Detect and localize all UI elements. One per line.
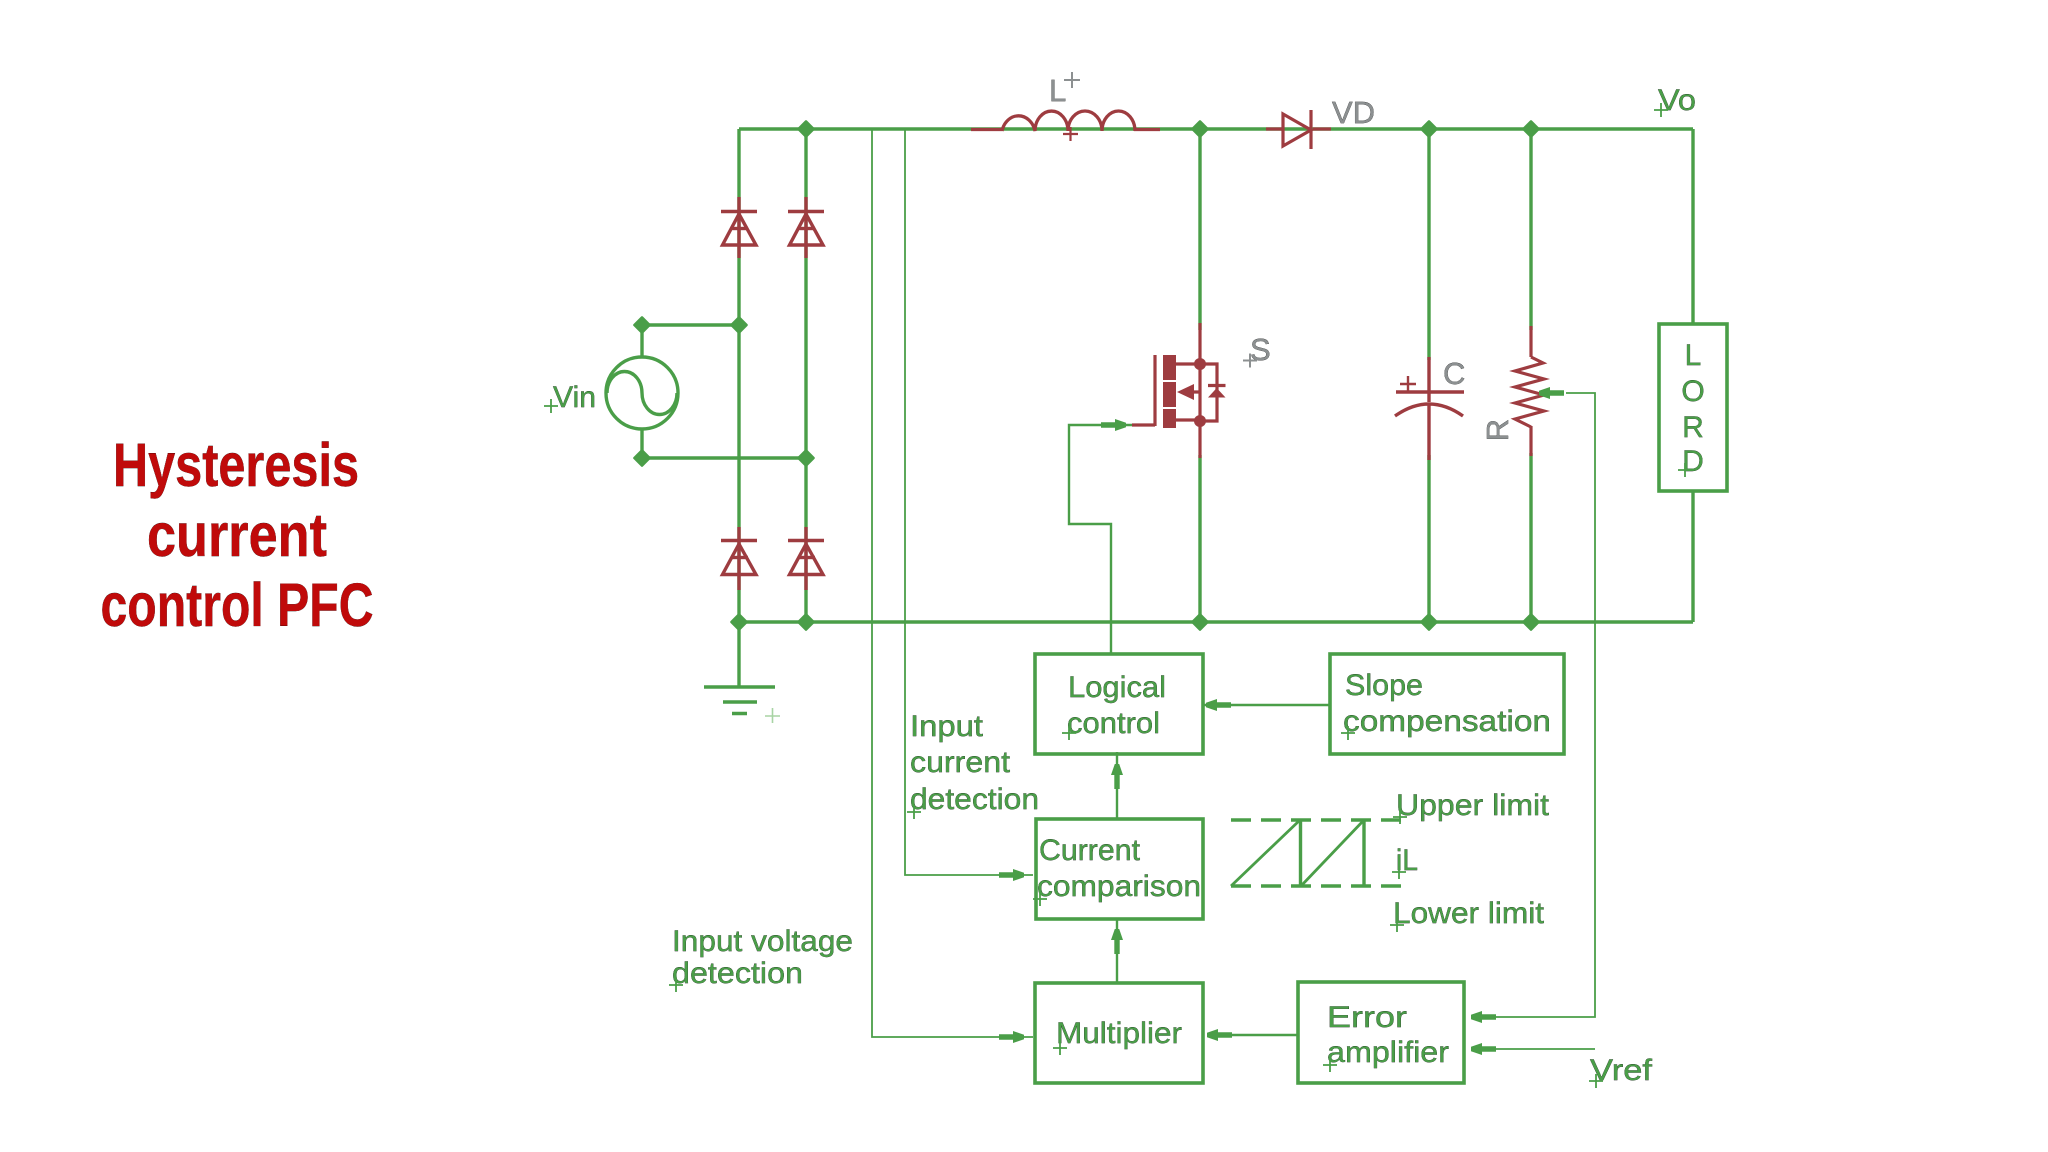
ground faint anchor [765, 708, 780, 723]
svg-text:Vref: Vref [1590, 1054, 1653, 1087]
diode D4 bridge lower right [788, 527, 824, 590]
junction resistor / top bus [1523, 121, 1538, 136]
channel connection stubs [1176, 364, 1200, 420]
diode VD (boost diode) [1266, 110, 1331, 149]
wire: top bus [739, 127, 1693, 130]
diode D3 bridge lower left [721, 527, 757, 590]
junction bridge right leg / bottom bus [798, 614, 813, 629]
svg-text:Input: Input [910, 710, 984, 743]
svg-text:current: current [910, 746, 1011, 779]
junction Vin plus terminal [634, 317, 649, 332]
wire: bridge right leg [804, 129, 807, 622]
wire: capacitor column [1427, 129, 1430, 622]
junction MOSFET source / bottom bus [1192, 614, 1207, 629]
svg-text:Multiplier: Multiplier [1056, 1017, 1182, 1050]
svg-text:C: C [1443, 356, 1465, 391]
svg-text:Vin: Vin [553, 381, 596, 414]
waveform lower dashed limit [1231, 884, 1401, 887]
anchor plus for Multiplier [1053, 1041, 1067, 1055]
svg-text:Upper limit: Upper limit [1396, 789, 1550, 822]
anchor plus for Input voltage detection [669, 978, 683, 992]
internal vertical between drain and source [1198, 364, 1201, 421]
junction Vin minus terminal [634, 450, 649, 465]
wire: error amplifier to multiplier [1207, 1034, 1298, 1036]
svg-text:Logical: Logical [1068, 671, 1166, 704]
wire: input current detection tap [905, 129, 1033, 875]
svg-text:control: control [1067, 707, 1160, 740]
svg-text:S: S [1250, 332, 1271, 367]
svg-text:amplifier: amplifier [1327, 1036, 1449, 1069]
gate electrode [1153, 355, 1156, 426]
waveform upper dashed limit [1231, 818, 1401, 821]
svg-text:L: L [1685, 339, 1702, 372]
inductor plus mark [1063, 127, 1078, 141]
thin sense wires [872, 129, 1595, 1049]
svg-text:Current: Current [1039, 834, 1141, 867]
arrow into logical control from slope comp [1206, 699, 1231, 711]
diode D1 bridge upper left [721, 197, 757, 258]
ground symbol [704, 687, 775, 714]
junction capacitor / top bus [1421, 121, 1436, 136]
wire: Vo feedback from resistor tap [1472, 393, 1595, 1017]
svg-text:Slope: Slope [1345, 669, 1423, 702]
svg-text:Vo: Vo [1658, 84, 1696, 117]
capacitor C (output cap) [1395, 357, 1464, 460]
block: load box [1659, 324, 1727, 491]
anchor plus for Error amplifier [1323, 1058, 1337, 1072]
svg-text:R: R [1682, 411, 1704, 444]
svg-text:compensation: compensation [1343, 705, 1551, 738]
body diode branch [1200, 364, 1217, 421]
svg-text:control PFC: control PFC [101, 571, 374, 639]
svg-text:detection: detection [910, 783, 1039, 816]
junction MOSFET drain / top bus [1192, 121, 1207, 136]
arrow into error amp lower (Vref) [1471, 1043, 1496, 1055]
block: Slope compensation [1330, 654, 1564, 754]
wire: input voltage detection tap [872, 129, 1033, 1037]
svg-text:comparison: comparison [1037, 870, 1201, 903]
wire: right drop to load [1691, 129, 1694, 325]
drain lead [1198, 323, 1201, 364]
wire: MOSFET source column [1198, 455, 1201, 622]
resistor R (output divider) [1515, 326, 1544, 456]
arrow into multiplier from error amp [1207, 1029, 1232, 1041]
arrow up into logical control [1111, 764, 1123, 789]
wire: load bottom to bus [1691, 491, 1694, 622]
gate lead [1132, 423, 1155, 426]
arrow into MOSFET gate [1101, 419, 1126, 431]
wire: Vin top connection [642, 323, 739, 326]
wire: current comparison to multiplier [1116, 918, 1118, 983]
AC source Vin [606, 357, 678, 429]
wire: logical control to current comparison [1116, 752, 1118, 819]
diode D2 bridge upper right [788, 197, 824, 258]
wire: gate drive from logical control [1069, 425, 1132, 654]
wire: bottom bus [739, 620, 1693, 623]
arrow up into current comparison [1111, 929, 1123, 954]
anchor plus for label Vref [1589, 1074, 1603, 1088]
svg-text:Error: Error [1327, 1001, 1407, 1034]
svg-text:O: O [1681, 375, 1704, 408]
junction ground / bottom bus [731, 614, 746, 629]
svg-text:detection: detection [672, 957, 803, 990]
transistor S (MOSFET switch) [1132, 323, 1226, 458]
wire: Vin stems [640, 325, 643, 458]
body arrow [1177, 384, 1194, 400]
wire: resistor column [1529, 129, 1532, 622]
svg-text:Lower limit: Lower limit [1393, 897, 1545, 930]
wire: bridge left leg [737, 129, 740, 622]
anchor plus for label Vin [544, 399, 558, 413]
block: Current comparison [1036, 819, 1203, 919]
anchor plus for label S [1243, 354, 1257, 368]
source lead [1198, 421, 1201, 458]
junction capacitor / bottom bus [1421, 614, 1436, 629]
MOSFET junction dots [1194, 358, 1206, 427]
wire: slope compensation to logical control [1204, 704, 1329, 706]
anchor plus for Logical control [1062, 726, 1076, 740]
anchor plus for Current comparison [1033, 892, 1047, 906]
anchor plus for Input current detection [907, 805, 921, 819]
inductor L (boost inductor) [971, 111, 1160, 131]
waveform sawtooth ramps [1231, 820, 1364, 886]
svg-text:VD: VD [1332, 95, 1375, 130]
junction Vin plus / bridge left leg [731, 317, 746, 332]
svg-text:Input voltage: Input voltage [672, 925, 853, 958]
block: Error amplifier [1298, 982, 1464, 1083]
junction bridge right leg / top bus [798, 121, 813, 136]
anchor plus for iL [1392, 865, 1406, 879]
svg-text:R: R [1480, 419, 1515, 441]
block: Multiplier [1035, 983, 1203, 1083]
anchor plus for load box [1678, 463, 1692, 477]
wire: Vin bottom connection [642, 456, 806, 459]
wire: ground stem [737, 622, 740, 686]
capacitor plus [1400, 376, 1416, 392]
title: Hysteresis current control PFC [101, 431, 374, 639]
wire: Vref input [1472, 1048, 1595, 1050]
junction Vin minus / bridge right leg [798, 450, 813, 465]
junction resistor / bottom bus [1523, 614, 1538, 629]
block: Logical control [1035, 654, 1203, 754]
arrow into multiplier (from voltage det) [999, 1031, 1024, 1043]
anchor plus for Slope compensation [1341, 726, 1355, 740]
waveform vertical drops [1301, 820, 1365, 886]
wire: MOSFET drain column [1198, 129, 1201, 330]
svg-text:current: current [147, 501, 327, 569]
arrow into error amp upper (Vo fb) [1471, 1011, 1496, 1023]
gate drive wire [1069, 425, 1329, 1035]
anchor plus for Lower limit [1390, 918, 1404, 932]
svg-text:L: L [1049, 73, 1066, 108]
anchor plus for label Vo [1654, 103, 1668, 117]
anchor plus for Upper limit [1393, 810, 1407, 824]
body diode filled triangle [1208, 388, 1226, 398]
svg-text:Hysteresis: Hysteresis [113, 431, 359, 499]
arrow into current comparison [999, 869, 1024, 881]
anchor plus for label L [1064, 72, 1080, 88]
arrow into resistor tap [1539, 387, 1564, 399]
MOSFET channel bars [1163, 355, 1226, 428]
